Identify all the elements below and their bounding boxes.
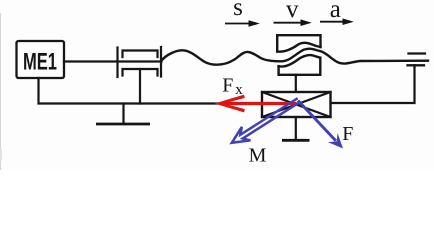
svg-text:s: s xyxy=(233,0,243,21)
svg-text:F: F xyxy=(342,123,353,145)
svg-text:a: a xyxy=(330,0,341,23)
svg-text:F: F xyxy=(222,74,233,96)
svg-text:ME1: ME1 xyxy=(23,49,57,76)
svg-text:v: v xyxy=(286,0,299,23)
svg-text:M: M xyxy=(249,145,267,167)
svg-text:x: x xyxy=(235,82,243,98)
